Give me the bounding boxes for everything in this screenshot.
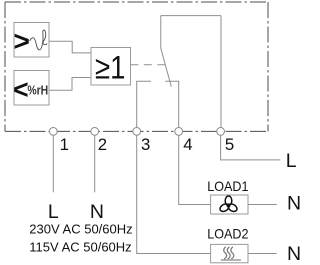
svg-text:L: L (286, 150, 297, 172)
svg-text:3: 3 (141, 135, 150, 154)
svg-text:N: N (287, 193, 300, 215)
svg-text:LOAD1: LOAD1 (207, 178, 248, 194)
svg-text:%rH: %rH (27, 83, 48, 98)
svg-text:>: > (14, 25, 30, 56)
svg-text:2: 2 (98, 135, 107, 154)
svg-text:4: 4 (183, 135, 192, 154)
svg-text:N: N (90, 201, 104, 223)
svg-text:≥1: ≥1 (95, 49, 125, 85)
svg-text:115V AC 50/60Hz: 115V AC 50/60Hz (29, 239, 131, 254)
svg-text:LOAD2: LOAD2 (207, 225, 248, 241)
svg-text:230V AC 50/60Hz: 230V AC 50/60Hz (29, 221, 132, 236)
svg-text:N: N (287, 243, 300, 265)
svg-text:<: < (13, 74, 28, 104)
svg-text:L: L (48, 201, 59, 223)
svg-text:5: 5 (225, 135, 234, 154)
svg-text:1: 1 (60, 135, 69, 154)
